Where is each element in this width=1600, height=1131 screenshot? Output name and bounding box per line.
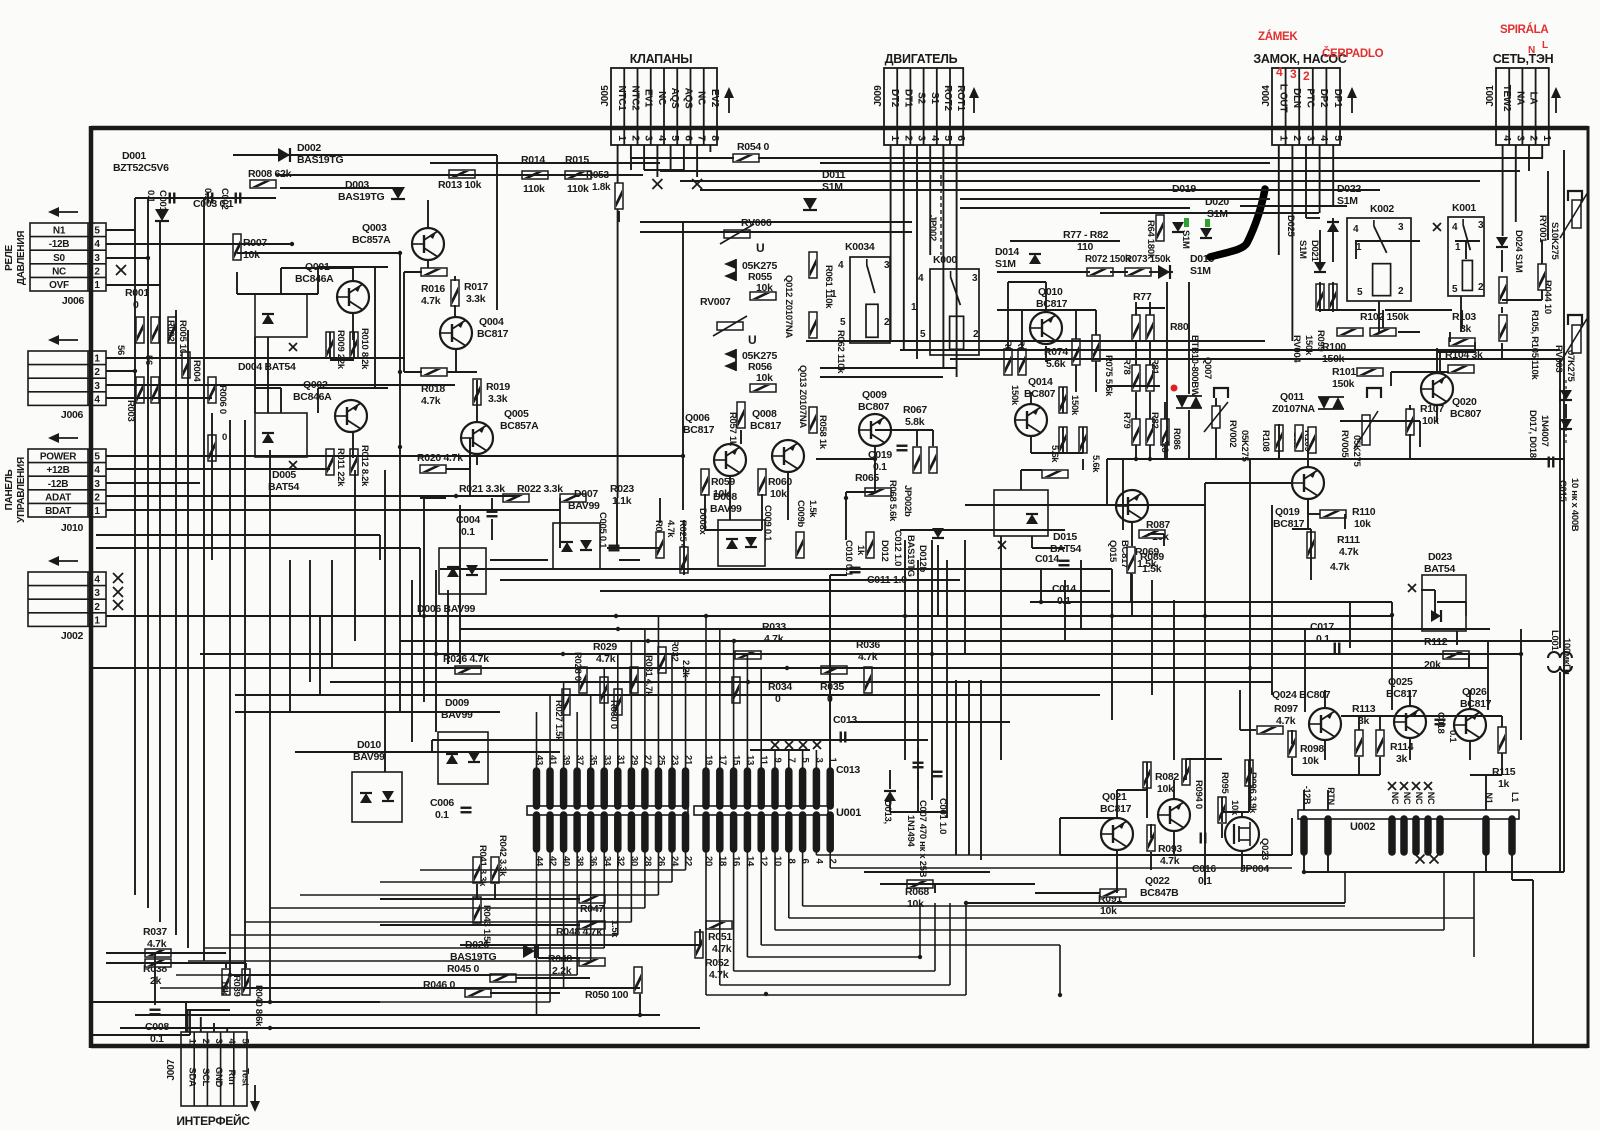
svg-text:C009 0.1: C009 0.1 <box>762 505 773 542</box>
svg-text:L: L <box>1542 40 1548 51</box>
svg-text:0.1: 0.1 <box>435 809 449 821</box>
wire bus <box>148 1001 550 1003</box>
svg-text:NC: NC <box>1402 792 1412 805</box>
wire <box>1095 310 1097 335</box>
svg-text:44: 44 <box>534 856 545 867</box>
capacitor C014 <box>1059 561 1070 566</box>
wire <box>1501 753 1503 775</box>
connector J006a body <box>30 223 106 291</box>
svg-text:1: 1 <box>94 615 100 626</box>
wire <box>460 628 1490 630</box>
svg-text:R001: R001 <box>125 287 149 299</box>
svg-text:2: 2 <box>629 135 641 141</box>
svg-text:R075 5.6k: R075 5.6k <box>1103 355 1114 397</box>
svg-text:C012 1.0: C012 1.0 <box>892 530 903 566</box>
wire <box>616 498 618 548</box>
ferrite mark 2 <box>1367 388 1381 398</box>
svg-text:9: 9 <box>772 758 783 763</box>
wire <box>1117 789 1147 791</box>
wire <box>135 1014 660 1016</box>
wire <box>289 560 291 712</box>
wire <box>559 498 561 548</box>
wire <box>607 547 660 549</box>
svg-text:D012: D012 <box>879 540 890 562</box>
wire <box>1185 759 1187 780</box>
wire <box>1327 790 1329 810</box>
wire <box>1382 310 1384 328</box>
svg-text:Q023: Q023 <box>1259 838 1270 860</box>
diode D009 diode b <box>468 752 480 762</box>
wire <box>446 468 470 470</box>
wire <box>1110 271 1128 273</box>
wire <box>235 711 500 713</box>
varistor 05K275 a <box>724 259 736 281</box>
svg-text:5: 5 <box>94 226 100 237</box>
wire <box>1163 534 1165 546</box>
svg-text:Q005: Q005 <box>504 408 529 420</box>
svg-text:GND: GND <box>213 1067 224 1088</box>
wire <box>900 529 1065 531</box>
wire <box>1082 459 1084 470</box>
svg-text:4.7k: 4.7k <box>1276 715 1296 727</box>
no-connect U002 <box>1400 782 1408 790</box>
wire <box>1308 513 1320 515</box>
junction <box>1390 613 1394 617</box>
wire <box>537 945 539 958</box>
resistor R074 <box>1072 339 1080 365</box>
resistor R81a <box>1146 315 1154 341</box>
svg-text:R004: R004 <box>191 360 202 383</box>
wire <box>1150 824 1152 838</box>
wire <box>476 884 478 898</box>
transistor Q024 <box>1309 708 1341 740</box>
resistor R029 <box>600 677 608 703</box>
resistor 5.6k c <box>1079 427 1087 453</box>
wire <box>106 455 683 457</box>
wire <box>1559 490 1561 648</box>
resistor R091 <box>1100 889 1126 897</box>
svg-text:30: 30 <box>628 856 639 866</box>
junction <box>1148 457 1152 461</box>
wire staircase <box>934 903 936 971</box>
svg-text:Q009: Q009 <box>862 389 887 401</box>
svg-text:3k: 3k <box>1396 753 1408 765</box>
junction <box>290 242 294 246</box>
svg-text:19: 19 <box>703 755 714 765</box>
wire <box>1007 282 1009 350</box>
svg-text:R027 1.5k: R027 1.5k <box>553 700 564 742</box>
svg-text:K000: K000 <box>933 254 957 266</box>
svg-text:BC847B: BC847B <box>1140 887 1179 899</box>
wire <box>135 197 276 199</box>
resistor R065 <box>865 488 891 496</box>
resistor R086 <box>1161 419 1169 445</box>
wire <box>1391 602 1393 710</box>
wire <box>761 494 763 530</box>
junction <box>561 652 565 656</box>
junction <box>638 1013 642 1017</box>
connector J002 body <box>28 572 106 626</box>
svg-text:4: 4 <box>929 135 941 141</box>
wire <box>427 260 429 268</box>
svg-text:4.7k: 4.7k <box>1330 561 1350 573</box>
svg-text:4.7k: 4.7k <box>421 295 441 307</box>
svg-text:26: 26 <box>655 856 666 866</box>
wire <box>1460 296 1462 332</box>
svg-text:5: 5 <box>942 135 954 141</box>
diode D006 diode b <box>466 565 478 575</box>
resistor R004x <box>151 377 159 403</box>
capacitor C005 <box>609 546 620 551</box>
transistor Q006 <box>714 444 746 476</box>
svg-text:Q015: Q015 <box>1107 540 1118 563</box>
diode D013 <box>884 791 896 801</box>
wire <box>1409 405 1411 410</box>
wire <box>331 560 333 668</box>
wire <box>106 482 200 484</box>
wire <box>1060 854 1292 856</box>
svg-text:L OUT: L OUT <box>1277 84 1288 113</box>
wire <box>330 681 1272 683</box>
junction <box>1302 870 1306 874</box>
wire <box>1436 348 1438 371</box>
wire <box>1031 452 1083 454</box>
wire <box>91 667 1488 669</box>
resistor Rmid <box>1042 470 1068 478</box>
svg-text:PTC: PTC <box>1305 88 1316 107</box>
svg-text:05K275: 05K275 <box>1351 435 1362 467</box>
svg-text:СЕТЬ,ТЭН: СЕТЬ,ТЭН <box>1493 52 1554 66</box>
junction <box>873 457 877 461</box>
resistor R053 <box>615 183 623 209</box>
svg-text:J010: J010 <box>61 522 84 534</box>
resistor R030 <box>614 689 622 715</box>
wire bus <box>245 921 631 923</box>
resistor R042 <box>491 857 499 883</box>
capacitor C003 <box>236 193 241 204</box>
wire <box>1515 145 1517 222</box>
wire staircase <box>949 903 951 985</box>
no-connect J002 pin4 <box>113 573 123 583</box>
resistor R035x <box>821 666 847 674</box>
diode D015 internal <box>1026 514 1038 524</box>
wire <box>916 430 918 446</box>
svg-text:16: 16 <box>731 856 742 866</box>
wire <box>154 953 156 1005</box>
wire <box>1173 780 1175 799</box>
svg-text:R015: R015 <box>565 154 589 166</box>
relay K0034 <box>850 257 890 343</box>
resistor R056 <box>750 384 776 392</box>
svg-text:NC: NC <box>1426 792 1436 805</box>
wire <box>476 454 478 465</box>
wire <box>917 748 919 760</box>
wire <box>1501 307 1503 313</box>
capacitor C001b <box>932 772 943 777</box>
no-connect U002 bottom <box>1430 855 1439 864</box>
wire <box>1436 405 1438 422</box>
varistor RV006 <box>720 224 754 244</box>
capacitor C011 <box>850 568 861 573</box>
no-connect U002 <box>1388 782 1396 790</box>
svg-text:C005 0.1: C005 0.1 <box>597 512 608 549</box>
wire <box>1455 240 1480 242</box>
wire <box>1355 241 1357 259</box>
svg-text:R105, R105 110k: R105, R105 110k <box>1529 310 1540 380</box>
svg-text:10k: 10k <box>756 372 773 384</box>
wire U001 bottom pin <box>603 849 605 948</box>
svg-text:ČERPADLO: ČERPADLO <box>1322 47 1384 60</box>
wire <box>476 404 478 422</box>
resistor R77 <box>1132 315 1140 341</box>
resistor R81 <box>1146 365 1154 391</box>
wire <box>1332 282 1334 312</box>
no-connect U002 <box>1412 782 1420 790</box>
wire <box>134 198 136 895</box>
svg-text:5: 5 <box>669 135 681 141</box>
wire <box>917 560 919 790</box>
svg-text:150k: 150k <box>1009 385 1020 406</box>
svg-text:4: 4 <box>94 575 100 586</box>
svg-text:EV1: EV1 <box>643 89 654 108</box>
svg-text:150k: 150k <box>1069 395 1080 416</box>
svg-text:J001: J001 <box>1485 85 1496 107</box>
svg-text:4: 4 <box>656 135 668 141</box>
resistor R063v <box>796 532 804 558</box>
wire <box>916 145 918 359</box>
wire <box>469 438 471 469</box>
svg-text:R020 4.7k: R020 4.7k <box>417 452 463 464</box>
svg-text:3: 3 <box>94 253 100 264</box>
svg-text:BC807: BC807 <box>1450 408 1482 420</box>
wire <box>900 349 1500 351</box>
svg-text:R032: R032 <box>669 640 680 662</box>
resistor R113 <box>1355 730 1363 756</box>
wire <box>1075 365 1077 392</box>
wire <box>1062 427 1064 453</box>
ic U002 pins <box>1304 819 1512 852</box>
wire <box>374 267 376 388</box>
svg-text:U001: U001 <box>836 807 861 819</box>
wire <box>1186 758 1222 760</box>
svg-text:4.7k: 4.7k <box>1160 855 1180 867</box>
wire <box>758 157 1543 159</box>
ferrite right top <box>1568 191 1582 201</box>
wire <box>1487 641 1489 710</box>
resistor R002 <box>168 317 176 343</box>
svg-text:6: 6 <box>682 135 694 141</box>
svg-text:D017, D018: D017, D018 <box>1527 410 1538 458</box>
resistor R001 <box>136 317 144 343</box>
wire <box>187 1010 189 1032</box>
wire <box>352 313 354 340</box>
svg-text:S1M: S1M <box>1297 240 1308 259</box>
wire <box>189 1010 191 1035</box>
wire U001 top pin <box>536 712 538 771</box>
wire <box>890 145 892 341</box>
wire <box>1520 629 1522 740</box>
svg-text:S1M: S1M <box>995 258 1016 270</box>
svg-text:4: 4 <box>1501 135 1513 141</box>
diode D003 <box>391 187 405 199</box>
resistor R050 <box>634 967 642 993</box>
svg-text:R009 22k: R009 22k <box>335 330 346 370</box>
wire <box>236 272 238 294</box>
wire <box>1221 797 1223 822</box>
svg-text:R054 0: R054 0 <box>737 141 770 153</box>
resistor 5.6k b <box>1059 427 1067 453</box>
svg-text:Q024 BC807: Q024 BC807 <box>1272 689 1331 701</box>
svg-text:3: 3 <box>643 135 655 141</box>
svg-text:BTB10-800BW: BTB10-800BW <box>1189 335 1200 397</box>
wire <box>1528 145 1530 171</box>
svg-text:D001: D001 <box>122 150 146 162</box>
transistor Q025 <box>1394 706 1426 738</box>
wire <box>106 384 455 386</box>
resistor R057 <box>737 402 745 428</box>
wire <box>1358 757 1360 775</box>
wire <box>660 170 1520 172</box>
svg-text:2: 2 <box>200 1039 211 1044</box>
wire <box>937 545 939 616</box>
diode D007 diode a <box>561 542 573 552</box>
svg-text:BZT52C5V6: BZT52C5V6 <box>113 162 169 174</box>
wire <box>431 740 433 752</box>
svg-text:29: 29 <box>628 755 639 765</box>
junction <box>434 652 438 656</box>
svg-text:Q007: Q007 <box>1202 357 1213 379</box>
svg-text:BC846A: BC846A <box>293 391 332 403</box>
svg-text:1: 1 <box>1455 242 1461 253</box>
svg-text:R074: R074 <box>1044 346 1068 358</box>
svg-text:10 нк x 400В: 10 нк x 400В <box>1569 478 1580 532</box>
svg-text:20k: 20k <box>1424 659 1441 671</box>
wire U001 top pin <box>746 654 748 771</box>
svg-text:1.1k: 1.1k <box>612 495 632 507</box>
svg-text:4: 4 <box>94 239 100 250</box>
svg-text:Q013 Z0107NA: Q013 Z0107NA <box>797 365 808 428</box>
svg-text:D014: D014 <box>995 246 1019 258</box>
svg-text:3: 3 <box>972 273 978 284</box>
svg-text:4: 4 <box>1318 135 1330 141</box>
svg-text:BC817: BC817 <box>1036 298 1068 310</box>
svg-text:C006: C006 <box>430 797 454 809</box>
wire <box>696 145 698 177</box>
capacitor C017 <box>1335 643 1340 654</box>
wire <box>538 957 580 959</box>
svg-text:0.1: 0.1 <box>461 526 475 538</box>
svg-text:2: 2 <box>1528 135 1540 141</box>
svg-text:R108: R108 <box>1260 430 1271 452</box>
wire <box>960 207 1190 209</box>
svg-text:RY001: RY001 <box>1537 215 1548 243</box>
wire <box>1111 569 1113 720</box>
wire <box>447 371 477 373</box>
wire <box>750 749 810 751</box>
svg-text:35: 35 <box>588 755 599 766</box>
wire <box>619 559 640 561</box>
svg-text:4: 4 <box>1276 65 1283 79</box>
junction <box>1248 666 1252 670</box>
svg-text:R087: R087 <box>1146 519 1170 531</box>
resistor R060 <box>758 469 766 495</box>
svg-text:R022 3.3k: R022 3.3k <box>517 483 563 495</box>
wire U001 top pin <box>657 616 659 771</box>
svg-text:10k: 10k <box>1229 800 1240 816</box>
wire <box>1434 590 1436 616</box>
wire bus <box>160 987 564 989</box>
svg-text:150k: 150k <box>1303 335 1314 356</box>
wire <box>1439 350 1441 371</box>
svg-text:C013: C013 <box>836 764 860 776</box>
wire <box>1136 307 1165 309</box>
svg-text:05K275: 05K275 <box>1239 430 1250 462</box>
wire <box>1215 428 1217 459</box>
svg-text:J006: J006 <box>61 409 84 421</box>
resistor R79 <box>1132 419 1140 445</box>
no-connect D005 <box>289 461 297 469</box>
triac Q011 triac <box>1318 397 1344 409</box>
wire <box>1045 346 1047 362</box>
connector J007 body <box>181 1032 247 1106</box>
wire staircase <box>919 903 921 957</box>
svg-text:BDAT: BDAT <box>45 506 71 517</box>
wire <box>352 432 354 458</box>
svg-text:J005: J005 <box>600 85 611 107</box>
svg-text:31: 31 <box>615 755 626 766</box>
no-connect J005 pin4 <box>652 179 662 189</box>
wire <box>280 187 392 189</box>
wire <box>1449 332 1451 342</box>
svg-text:RV002: RV002 <box>1227 420 1238 447</box>
wire <box>1149 392 1151 419</box>
wire U001 top pin <box>576 712 578 771</box>
wire U001 top pin <box>617 654 619 771</box>
svg-text:R107: R107 <box>1420 403 1444 415</box>
green mark 2 <box>1205 219 1210 227</box>
resistor R082a <box>1143 762 1151 788</box>
junction <box>1110 614 1114 618</box>
wire <box>917 772 919 812</box>
svg-text:5: 5 <box>920 329 926 340</box>
no-connect D015 <box>998 541 1006 549</box>
svg-text:S10K275: S10K275 <box>1549 222 1560 261</box>
wire <box>729 476 731 520</box>
wire <box>1080 560 1082 629</box>
wire <box>106 952 226 954</box>
junction <box>616 627 620 631</box>
wire <box>946 812 948 818</box>
svg-text:3: 3 <box>884 260 890 271</box>
wire <box>330 359 354 361</box>
svg-text:3: 3 <box>1290 67 1297 81</box>
wire <box>1062 387 1064 413</box>
resistor R011 <box>326 449 334 475</box>
svg-text:R008 62k: R008 62k <box>248 168 292 180</box>
resistor R068 <box>907 880 933 888</box>
svg-text:1N1494: 1N1494 <box>905 815 916 847</box>
svg-text:21: 21 <box>683 755 694 766</box>
wire <box>106 962 246 964</box>
svg-text:R80: R80 <box>1170 321 1189 333</box>
wire bus <box>420 869 686 871</box>
wire <box>1319 145 1321 213</box>
wire <box>380 898 580 900</box>
wire <box>1485 852 1487 872</box>
green mark <box>1184 218 1189 227</box>
connector J005 body <box>611 68 717 145</box>
wire <box>93 1034 190 1036</box>
